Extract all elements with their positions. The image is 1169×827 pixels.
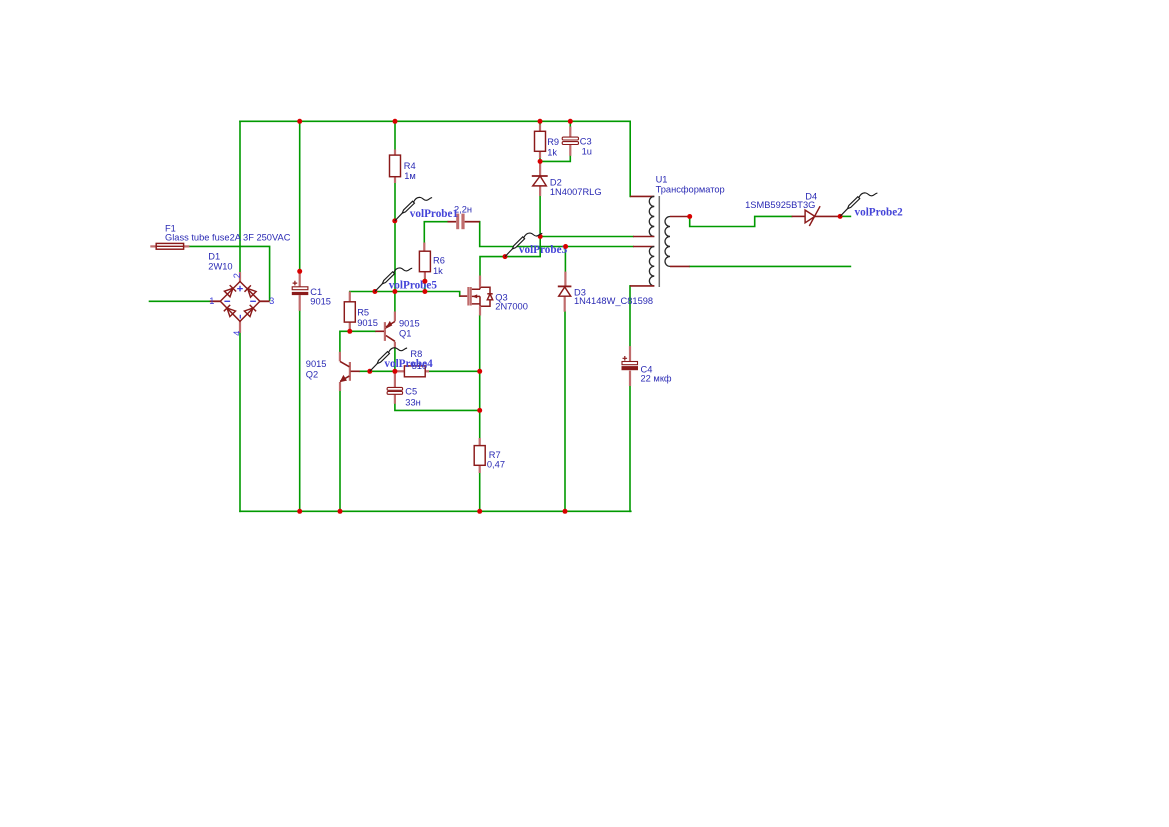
- svg-text:R7: R7: [489, 450, 501, 460]
- wire transformer lower left to C4: [629, 286, 631, 346]
- wire R9 bottom to node: [539, 158, 541, 161]
- svg-text:0,47: 0,47: [487, 460, 505, 470]
- node dot secondary top: [687, 214, 692, 219]
- capacitor C5: [387, 372, 403, 404]
- wire C1 branch upper: [299, 121, 301, 272]
- svg-text:9015: 9015: [399, 319, 420, 329]
- transformer primary lower lead bottom: [630, 285, 654, 287]
- wire volProbe4 horizontal left: [360, 370, 397, 372]
- node dot C5 bottom: [477, 408, 482, 413]
- node dot volProbe4 tap: [367, 369, 372, 374]
- bridge minus mark right: [250, 300, 256, 302]
- wire left vertical above bridge: [239, 121, 241, 272]
- wire AC stub to bridge pin 1: [150, 300, 210, 302]
- transformer core: [658, 196, 660, 287]
- probe volProbe2: [840, 193, 877, 217]
- node dot bottom bus D3: [563, 509, 568, 514]
- transformer primary upper lead bottom: [633, 236, 654, 238]
- wire Q3 source down to R7: [479, 316, 481, 439]
- svg-text:Q1: Q1: [399, 329, 411, 339]
- wire net A jog to Q3 drain: [480, 237, 540, 276]
- capacitor C3: [562, 127, 578, 156]
- transformer primary lower winding: [649, 247, 654, 286]
- wire fuse to bridge pin 3: [189, 246, 269, 300]
- svg-text:volProbe3: volProbe3: [519, 244, 568, 256]
- wire C3 bottom to R9 node: [543, 156, 570, 162]
- svg-text:22 мкф: 22 мкф: [641, 374, 672, 384]
- node dot volProbe2 tap: [838, 214, 843, 219]
- node dot Q1 emitter: [392, 289, 397, 294]
- svg-text:2W10: 2W10: [208, 261, 232, 271]
- bridge diode top-left: [224, 285, 236, 297]
- node dot top bus C3: [568, 119, 573, 124]
- wire D3 bottom to bus: [564, 312, 566, 512]
- svg-text:volProbe2: volProbe2: [855, 207, 904, 219]
- svg-text:1k: 1k: [433, 266, 443, 276]
- fuse F1: [150, 243, 189, 249]
- wire R8 right to Q3 source line: [429, 370, 480, 372]
- resistor R4: [390, 150, 401, 184]
- svg-text:1м: 1м: [404, 171, 416, 181]
- svg-text:2: 2: [232, 273, 242, 278]
- transformer secondary lead top: [670, 216, 690, 218]
- wire R4 branch upper: [394, 121, 396, 149]
- node dot net A D2 anode: [538, 234, 543, 239]
- svg-text:4: 4: [232, 331, 242, 336]
- node dot top bus R9: [538, 119, 543, 124]
- node dot bottom bus R7: [477, 509, 482, 514]
- svg-text:1: 1: [209, 296, 214, 306]
- wire D2 anode down to net A node: [539, 196, 541, 237]
- svg-text:R9: R9: [547, 137, 559, 147]
- svg-text:1k: 1k: [547, 147, 557, 157]
- wire D4 cathode stub: [840, 215, 850, 217]
- svg-text:C5: C5: [405, 386, 417, 396]
- node dot bottom bus C1: [297, 509, 302, 514]
- node dot C1 top: [297, 269, 302, 274]
- wire R6 top to coupling cap: [424, 222, 447, 243]
- node dot volProbe1 tap: [392, 218, 397, 223]
- svg-text:9015: 9015: [306, 359, 327, 369]
- wire secondary bottom long: [690, 265, 851, 267]
- svg-text:Glass tube fuse2A 3F 250VAC: Glass tube fuse2A 3F 250VAC: [165, 233, 291, 243]
- svg-text:33н: 33н: [405, 397, 420, 407]
- svg-text:1N4007RLG: 1N4007RLG: [550, 187, 602, 197]
- wire coupling cap right to net B: [480, 222, 633, 247]
- node dot bottom bus Q2: [338, 509, 343, 514]
- svg-text:9015: 9015: [310, 296, 331, 306]
- wire R5 node to Q1 base: [350, 330, 376, 332]
- svg-text:C3: C3: [580, 136, 592, 146]
- bridge diode bottom-left: [224, 305, 236, 317]
- node dot R9 C3 D2: [538, 159, 543, 164]
- capacitor C1 polarized: [292, 273, 309, 311]
- wire secondary top jog to D4: [690, 216, 792, 226]
- transistor Q1 PNP: [375, 312, 395, 349]
- wire R9 top: [539, 121, 541, 124]
- node dot R8 right: [477, 369, 482, 374]
- wire net A to transformer primary upper: [540, 236, 633, 238]
- resistor R5: [344, 292, 355, 332]
- svg-text:R4: R4: [404, 161, 416, 171]
- node dot R5 Q1 base Q2: [347, 329, 352, 334]
- probe volProbe5: [375, 268, 412, 292]
- svg-text:9015: 9015: [357, 318, 378, 328]
- diode D2: [532, 164, 548, 197]
- node dot volProbe3 tap: [503, 254, 508, 259]
- wire R5 bottom node to Q2 emitter: [340, 331, 350, 352]
- diode D3: [558, 272, 572, 312]
- wire C1 branch lower: [299, 311, 301, 512]
- probe volProbe1: [395, 197, 432, 221]
- wire R4 to volProbe5 node: [394, 183, 396, 292]
- svg-text:R5: R5: [357, 307, 369, 317]
- wire Q2 collector down: [339, 391, 341, 511]
- capacitor C4 polarized: [622, 346, 639, 386]
- wire left vertical below bridge: [239, 333, 241, 511]
- wire Q1 emitter up: [394, 292, 396, 312]
- node dot top bus R4: [393, 119, 398, 124]
- wire D3 top: [564, 247, 566, 272]
- capacitor C2 2.2n coupling: [448, 214, 480, 230]
- node dot R6 bottom: [422, 289, 427, 294]
- transformer primary lower lead top: [633, 246, 654, 248]
- svg-text:volProbe4: volProbe4: [384, 358, 433, 370]
- bridge minus mark left: [224, 300, 230, 302]
- svg-text:Q2: Q2: [306, 370, 318, 380]
- resistor R6: [419, 243, 430, 279]
- wire C4 bottom to bus: [629, 386, 631, 511]
- bridge rectifier D1: [210, 272, 270, 333]
- svg-text:2N7000: 2N7000: [495, 302, 528, 312]
- node dot net B D3: [563, 244, 568, 249]
- resistor R9: [535, 125, 546, 159]
- bridge diode top-right: [245, 285, 257, 297]
- svg-text:1u: 1u: [582, 146, 592, 156]
- bridge diode bottom-right: [244, 305, 256, 317]
- wire C5 bottom horizontal: [395, 404, 480, 411]
- transformer primary upper winding: [649, 196, 654, 236]
- svg-text:R6: R6: [433, 255, 445, 265]
- wire R7 to bottom bus: [479, 473, 481, 511]
- resistor R8: [397, 366, 430, 377]
- svg-text:1N4148W_C81598: 1N4148W_C81598: [574, 296, 653, 306]
- probe volProbe3: [505, 233, 542, 257]
- transformer U1: [630, 196, 690, 287]
- node dot R6 bottom wire end: [422, 279, 427, 284]
- wire transformer right vertical upper: [629, 121, 631, 196]
- mosfet Q3 2N7000: [460, 276, 493, 316]
- node dot top bus C1: [297, 119, 302, 124]
- transformer secondary winding: [665, 217, 670, 267]
- transistor Q2 PNP: [340, 352, 360, 391]
- bridge plus mark: [237, 286, 243, 292]
- svg-text:3: 3: [269, 296, 274, 306]
- transformer secondary lead bottom: [670, 265, 690, 267]
- probe volProbe4: [370, 348, 407, 372]
- bridge minus mark bottom: [239, 315, 241, 319]
- wire Q1 collector down: [394, 348, 396, 371]
- wire R6 bottom to volProbe5 node: [424, 279, 426, 292]
- resistor R7: [474, 438, 485, 473]
- wire volProbe5 horizontal: [350, 292, 460, 297]
- svg-text:1SMB5925BT3G: 1SMB5925BT3G: [745, 200, 815, 210]
- wire top bus: [240, 120, 630, 122]
- zener diode D4: [792, 206, 841, 226]
- svg-text:Трансформатор: Трансформатор: [656, 184, 725, 194]
- wire C3 top: [569, 121, 571, 126]
- svg-text:volProbe1: volProbe1: [410, 208, 459, 220]
- node dot volProbe5 tap: [372, 289, 377, 294]
- svg-text:D1: D1: [208, 252, 220, 262]
- svg-text:U1: U1: [656, 175, 668, 185]
- transformer primary upper lead top: [630, 195, 654, 197]
- wire bottom bus: [240, 510, 631, 512]
- node dot Q1 collector C5: [392, 369, 397, 374]
